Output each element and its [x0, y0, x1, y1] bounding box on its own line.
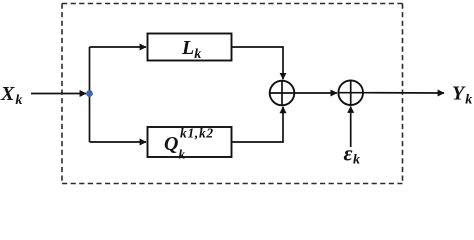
wire: junction to Lk block — [90, 46, 147, 48]
block Lk — [148, 34, 232, 61]
wire: summer 2 to output Yk — [363, 92, 444, 94]
summer 2 (circle with plus) — [338, 80, 363, 105]
label Qk k1,k2 — [164, 126, 214, 162]
svg-text:ε: ε — [344, 141, 353, 166]
label epsilon k — [344, 141, 361, 168]
wire: vertical splitter at junction — [89, 47, 91, 142]
dashed system boundary box — [62, 4, 403, 184]
summer 1 (circle with plus) — [270, 81, 295, 106]
svg-text:k1,k2: k1,k2 — [180, 126, 214, 141]
wire: epsilon k noise input to summer 2 — [350, 107, 352, 148]
wire: input Xk to junction — [31, 93, 86, 95]
svg-text:k: k — [179, 147, 186, 162]
block Qk k1,k2 — [148, 127, 232, 157]
node junction dot — [86, 90, 93, 97]
wire: Lk block to summer 1 (right then down) — [232, 47, 284, 79]
wire: Qk block to summer 1 (right then up) — [232, 107, 284, 142]
wire: summer 1 to summer 2 — [294, 92, 337, 94]
wire: junction to Qk block — [90, 141, 147, 143]
svg-text:Q: Q — [164, 133, 178, 155]
svg-text:k: k — [353, 153, 360, 168]
